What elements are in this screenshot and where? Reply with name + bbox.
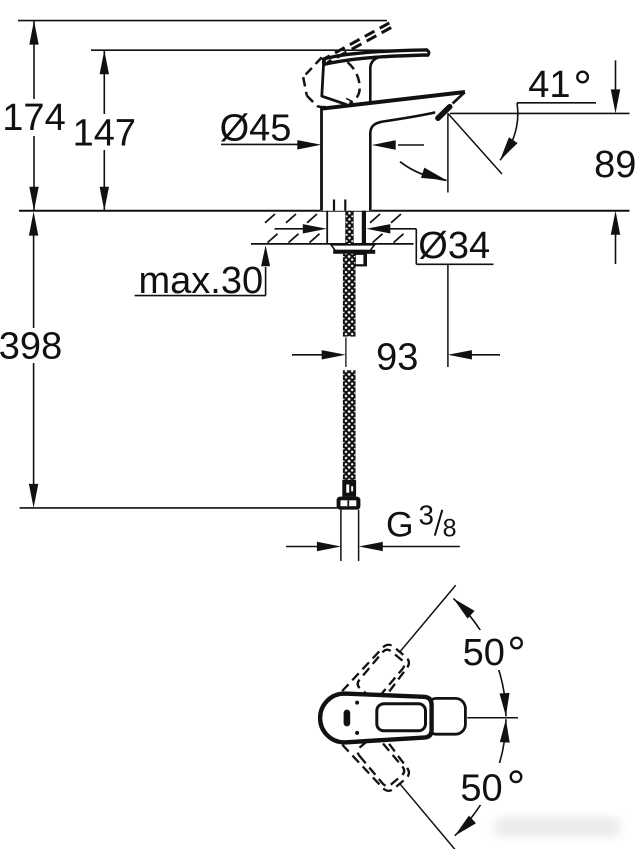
- svg-text:398: 398: [0, 326, 62, 368]
- svg-text:8: 8: [443, 515, 457, 543]
- svg-text:Ø34: Ø34: [418, 225, 490, 267]
- svg-text:89: 89: [594, 144, 636, 186]
- svg-text:93: 93: [376, 337, 418, 379]
- svg-text:147: 147: [73, 113, 136, 155]
- svg-text:174: 174: [2, 97, 65, 139]
- svg-text:3: 3: [419, 500, 434, 531]
- svg-text:41: 41: [528, 64, 570, 106]
- svg-text:50: 50: [463, 632, 505, 674]
- svg-text:G: G: [386, 505, 414, 545]
- svg-text:max.30: max.30: [139, 260, 264, 302]
- svg-text:50: 50: [460, 768, 502, 810]
- svg-text:Ø45: Ø45: [220, 107, 292, 149]
